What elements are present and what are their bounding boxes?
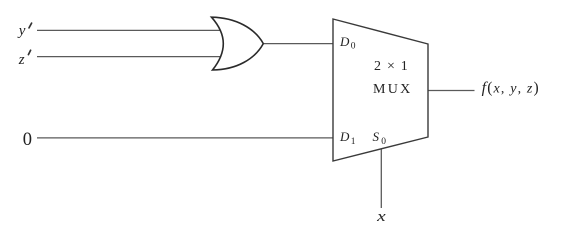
svg-text:MUX: MUX xyxy=(373,82,413,97)
svg-text:x: x xyxy=(376,209,386,225)
svg-text:0: 0 xyxy=(23,130,32,150)
svg-text:0: 0 xyxy=(351,42,356,52)
svg-text:2 × 1: 2 × 1 xyxy=(374,59,409,74)
svg-text:1: 1 xyxy=(351,137,356,147)
svg-text:y: y xyxy=(17,23,26,39)
svg-text:D: D xyxy=(339,34,350,49)
svg-text:D: D xyxy=(339,129,350,144)
svg-text:f(x, y, z): f(x, y, z) xyxy=(482,80,540,97)
svg-text:0: 0 xyxy=(381,137,386,147)
svg-text:S: S xyxy=(373,129,380,144)
svg-text:z: z xyxy=(18,52,25,68)
